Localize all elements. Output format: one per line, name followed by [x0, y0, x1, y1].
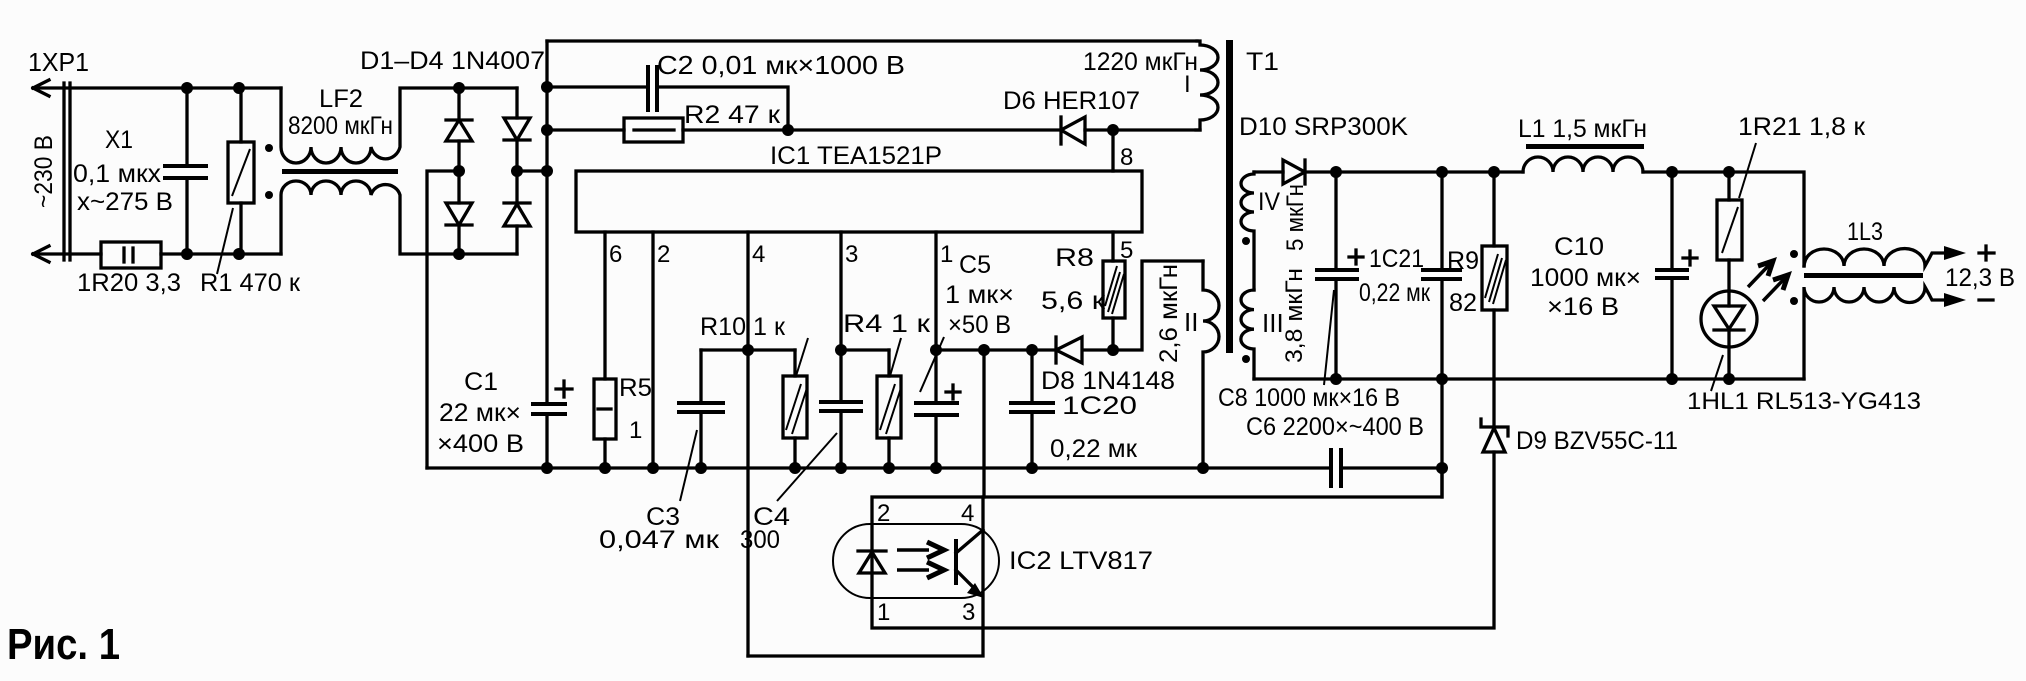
svg-text:II: II [1184, 307, 1198, 337]
optocoupler IC2 light arrows [897, 542, 944, 578]
choke 1L3 core [1804, 273, 1923, 278]
choke 1L3 top winding [1804, 249, 1948, 266]
optocoupler IC2 emitter loop [748, 628, 983, 656]
capacitor 1C21 [1421, 172, 1462, 468]
node secondary rail dots [1330, 166, 1735, 178]
wire AC top from connector to LF2 [33, 86, 281, 89]
svg-text:1000 мк×: 1000 мк× [1530, 264, 1641, 292]
output plus arrow [1944, 246, 1966, 260]
svg-text:D8 1N4148: D8 1N4148 [1041, 367, 1175, 395]
svg-text:I: I [1184, 71, 1191, 98]
node drain junction [1107, 124, 1119, 136]
capacitor C2 snubber [547, 65, 788, 130]
svg-text:1R20 3,3: 1R20 3,3 [77, 269, 181, 297]
choke LF2 bottom winding [281, 181, 517, 254]
svg-text:2: 2 [877, 500, 890, 527]
svg-text:8200 мкГн: 8200 мкГн [288, 112, 393, 140]
label C5 plus [946, 385, 960, 399]
pin 4 wire [746, 232, 749, 656]
capacitor C3 [677, 350, 725, 468]
diode D2 right top [504, 88, 530, 171]
node C6 junction dot [1436, 462, 1448, 474]
connector 1XP1 arrows and pins [33, 80, 70, 262]
svg-text:1220 мкГн: 1220 мкГн [1083, 48, 1198, 76]
svg-text:C8 1000 мк×16 В: C8 1000 мк×16 В [1218, 384, 1400, 412]
svg-text:IC1 TEA1521P: IC1 TEA1521P [770, 142, 942, 170]
pin 3 wire [839, 232, 842, 402]
capacitor C4 [819, 402, 863, 468]
svg-text:4: 4 [961, 500, 974, 527]
resistor R2 [547, 118, 1061, 142]
wire IC2 pin2 to secondary ground [983, 468, 1442, 497]
diode D1 left top [446, 88, 472, 171]
diode D6 HER107 [1061, 117, 1200, 144]
label C8 value with pointer [1324, 290, 1334, 385]
resistor R9 [1482, 172, 1507, 424]
svg-text:300: 300 [740, 526, 780, 554]
wire secondary ground rail [1254, 377, 1804, 380]
svg-text:×16 В: ×16 В [1547, 293, 1619, 321]
svg-text:2,6 мкГн: 2,6 мкГн [1155, 264, 1183, 363]
svg-text:IC2 LTV817: IC2 LTV817 [1009, 547, 1153, 575]
svg-text:LF2: LF2 [319, 85, 363, 113]
svg-text:1L3: 1L3 [1847, 218, 1883, 246]
svg-text:1C20: 1C20 [1062, 392, 1137, 420]
optocoupler IC2 body [872, 497, 983, 628]
capacitor C8 [1315, 172, 1359, 379]
node bus junction dots [541, 462, 1209, 474]
svg-text:D10 SRP300K: D10 SRP300K [1239, 113, 1408, 141]
output minus arrow [1944, 293, 1966, 307]
wire pin 8 [1111, 130, 1114, 171]
capacitor C10 [1655, 172, 1689, 379]
label C4 300 with pointer [777, 433, 837, 501]
svg-text:R10 1 к: R10 1 к [700, 313, 786, 341]
choke 1L3 polarity dots [1790, 250, 1798, 258]
wire bridge plus output [517, 169, 547, 172]
label R10 1 k with pointer [796, 338, 808, 376]
resistor R8 [1103, 261, 1125, 350]
LED 1HL1 light arrows [1748, 261, 1788, 301]
svg-text:D9 BZV55C-11: D9 BZV55C-11 [1516, 427, 1678, 455]
wire primary minus bus y468 [427, 466, 1330, 469]
pin 6 wire [603, 232, 606, 379]
node junction dots AC lines [181, 82, 245, 260]
svg-text:1HL1 RL513-YG413: 1HL1 RL513-YG413 [1687, 388, 1921, 415]
wire net Vcc segment [936, 261, 1203, 350]
capacitor 1C20 [1009, 350, 1055, 468]
svg-text:82: 82 [1449, 289, 1477, 317]
inductor L1 [1523, 157, 1643, 172]
capacitor C1 [531, 404, 567, 468]
transformer T1 core [1226, 40, 1233, 353]
label C10 plus [1683, 251, 1697, 265]
svg-text:3: 3 [845, 241, 858, 268]
diode D4 right bottom [504, 171, 530, 254]
optocoupler IC2 LED [858, 551, 886, 573]
wire AC bottom from fuse to LF2 [161, 252, 281, 255]
svg-text:R1 470 к: R1 470 к [200, 269, 301, 297]
diode D8 1N4148 [1056, 337, 1082, 363]
svg-text:D6 HER107: D6 HER107 [1003, 87, 1140, 115]
wire net pin4 segment [701, 348, 795, 351]
label 1R21 1,8 k with pointer [1739, 143, 1756, 198]
capacitor X1 [163, 88, 208, 254]
capacitor C5 [914, 403, 959, 468]
label C1 plus [556, 381, 572, 397]
svg-text:0,047 мк: 0,047 мк [599, 526, 720, 554]
label C8 plus and 1C21 [1349, 250, 1363, 264]
svg-text:12,3 В: 12,3 В [1945, 264, 2015, 292]
wire secondary plus rail [1336, 170, 1523, 173]
resistor R10 [783, 350, 807, 468]
transformer T1 winding IV [1241, 172, 1254, 290]
svg-text:C5: C5 [959, 251, 991, 279]
diode D10 SRP300K [1254, 160, 1336, 184]
fuse 1R20 [101, 242, 161, 268]
svg-text:Рис. 1: Рис. 1 [7, 620, 120, 669]
node bridge junction dots [453, 82, 523, 260]
node pin4 net dots [742, 344, 1119, 356]
node snubber junction [782, 124, 794, 136]
choke LF2 polarity dots [265, 144, 273, 152]
svg-text:R2 47 к: R2 47 к [684, 101, 781, 129]
svg-text:0,22 мк: 0,22 мк [1359, 279, 1431, 307]
pin 2 wire [651, 232, 654, 468]
wire top rail DC plus to transformer [547, 39, 1197, 42]
svg-text:1: 1 [629, 417, 642, 444]
transformer T1 winding I [1196, 41, 1218, 130]
LED 1HL1 [1701, 291, 1757, 379]
svg-text:R9: R9 [1447, 247, 1479, 275]
svg-text:1: 1 [940, 241, 953, 268]
svg-text:C6 2200×~400 В: C6 2200×~400 В [1246, 413, 1424, 441]
capacitor C6 Y-cap [1331, 448, 1442, 497]
svg-text:8: 8 [1120, 144, 1133, 171]
wire IC2 collector riser [982, 350, 985, 497]
diode D3 left bottom [446, 171, 472, 254]
choke LF2 core [282, 169, 398, 174]
label 1HL1 with pointer [1711, 355, 1723, 391]
svg-text:IV: IV [1258, 188, 1280, 216]
choke LF2 top winding [281, 88, 517, 163]
node ground rail dots [1330, 373, 1735, 385]
svg-text:1R21 1,8 к: 1R21 1,8 к [1738, 113, 1866, 141]
svg-text:L1 1,5 мкГн: L1 1,5 мкГн [1518, 115, 1647, 143]
resistor 1R21 [1717, 172, 1742, 291]
svg-text:T1: T1 [1246, 48, 1279, 76]
svg-text:C1: C1 [464, 368, 498, 396]
label C3 with pointer [680, 430, 697, 501]
optocoupler IC2 phototransistor [956, 530, 984, 598]
svg-text:1C21: 1C21 [1369, 245, 1424, 273]
transformer T1 winding II [1203, 261, 1219, 468]
resistor R1 varistor [228, 88, 254, 254]
svg-text:1ХР1: 1ХР1 [28, 47, 89, 77]
svg-text:×50 В: ×50 В [948, 311, 1011, 339]
wire AC bottom from connector to fuse 1R20 [33, 252, 101, 255]
svg-text:0,1 мкх: 0,1 мкх [73, 160, 162, 188]
wire net pin3 segment [841, 348, 889, 351]
resistor R5 [594, 379, 616, 468]
svg-text:6: 6 [609, 241, 622, 268]
label R4 1 k with pointer [890, 338, 901, 376]
svg-text:4: 4 [752, 241, 765, 268]
transformer T1 polarity dots [1242, 237, 1250, 245]
wire DC plus riser x547 [545, 41, 548, 402]
svg-text:~230 В: ~230 В [30, 135, 58, 208]
zener D9 BZV55C-11 [1481, 419, 1508, 452]
label C5 value with pointer [920, 337, 944, 392]
svg-text:5,6 к: 5,6 к [1041, 287, 1106, 315]
svg-text:5 мкГн: 5 мкГн [1282, 184, 1309, 251]
svg-text:х~275 В: х~275 В [77, 188, 173, 216]
svg-text:22 мк×: 22 мк× [439, 399, 521, 427]
svg-text:1: 1 [877, 599, 890, 626]
IC1 TEA1521P body [576, 171, 1142, 232]
svg-text:0,22 мк: 0,22 мк [1050, 435, 1138, 463]
svg-text:1 мк×: 1 мк× [945, 281, 1014, 309]
svg-text:R5: R5 [619, 374, 652, 402]
pin 1 wire [934, 232, 937, 401]
svg-text:C2 0,01 мк×1000 В: C2 0,01 мк×1000 В [657, 50, 905, 80]
svg-text:Х1: Х1 [105, 126, 133, 154]
svg-text:D1–D4 1N4007: D1–D4 1N4007 [360, 47, 545, 75]
svg-text:3,8 мкГн: 3,8 мкГн [1281, 268, 1308, 363]
node DC plus dots on riser [541, 81, 553, 177]
label R1 470 k with pointer [217, 208, 233, 274]
resistor R4 [877, 350, 901, 468]
svg-text:2: 2 [657, 241, 670, 268]
inductor L1 core [1526, 144, 1644, 149]
svg-text:R8: R8 [1055, 244, 1094, 272]
svg-text:R4 1 к: R4 1 к [843, 310, 931, 338]
wire secondary plus rail right [1643, 172, 1804, 266]
svg-text:C10: C10 [1554, 233, 1604, 261]
pin 5 wire [1111, 232, 1114, 261]
wire IC2 pin1 to zener D9 [983, 452, 1494, 628]
svg-text:×400 В: ×400 В [437, 430, 524, 458]
wire bridge minus output to bus [427, 171, 459, 468]
choke 1L3 bottom winding [1804, 287, 1948, 379]
svg-text:3: 3 [962, 599, 975, 626]
transformer T1 winding III [1241, 290, 1254, 379]
optocoupler IC2 stadium outline [833, 524, 999, 598]
